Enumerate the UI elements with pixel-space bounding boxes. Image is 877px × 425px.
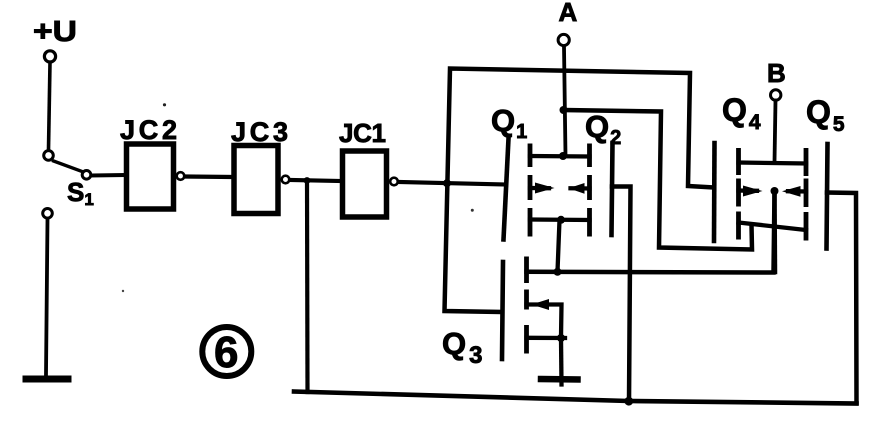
wire Q3 source to ground (559, 338, 564, 385)
junction dot sources (557, 216, 565, 224)
wire switch to JC2 input (92, 173, 125, 178)
wire JC3 to JC1 (290, 180, 341, 181)
Q1/Q2 drain lead (530, 154, 590, 159)
Q1 substrate arrow (535, 183, 555, 194)
junction dot bottom rail (624, 397, 633, 406)
wire sources down to Q3 drain (558, 220, 560, 272)
wire A down to Q1/Q2 drains (564, 47, 566, 157)
junction dot Q4/Q5 substrates (771, 187, 779, 195)
switch S1 pivot contact (44, 151, 54, 161)
Q2 channel bars (587, 144, 592, 237)
svg-text:+U: +U (33, 16, 77, 48)
wire junction down to bottom rail (305, 181, 310, 393)
svg-text:S1: S1 (67, 177, 94, 209)
Q1/Q2 substrate lead (530, 186, 590, 191)
IC JC1 box (343, 151, 387, 217)
Q3 channel bars (524, 257, 529, 354)
svg-text:Q5: Q5 (806, 94, 845, 136)
IC JC2 box (127, 144, 174, 209)
svg-text:Q2: Q2 (585, 109, 621, 149)
terminal +U (44, 51, 55, 62)
junction dot node A branch (560, 106, 568, 114)
Q4 substrate arrow (743, 186, 763, 197)
Q1 channel bars (528, 144, 533, 237)
feedback net from JC1 node to Q3 gate and Q4 gate (445, 69, 715, 313)
wire Q2 gate to bottom rail (612, 187, 631, 403)
Q4/Q5 source lead (739, 223, 807, 231)
Q3 source lead (527, 336, 566, 341)
transistor Q3 gate (502, 262, 503, 359)
JC2 output bubble (177, 172, 185, 180)
svg-text:Q4: Q4 (722, 92, 761, 134)
Q4 channel bars (736, 148, 741, 240)
speckle (163, 103, 166, 106)
Q1/Q2 source lead (530, 217, 590, 222)
svg-text:Q3: Q3 (442, 326, 482, 369)
junction node after JC3 (304, 177, 311, 184)
transistor Q1 gate (504, 139, 509, 240)
Q3 drain lead and net to Q4/Q5 substrate (527, 192, 775, 273)
JC1 output bubble (390, 178, 398, 186)
wire JC1 output to Q1 gate (399, 182, 507, 185)
wire JC2 to JC3 (185, 174, 231, 179)
wire +U terminal to switch pivot (49, 63, 51, 150)
wire node A to Q4/Q5 sources (564, 110, 753, 250)
speckle (471, 209, 474, 212)
Q4/Q5 substrate lead (739, 191, 807, 192)
terminal B (771, 90, 781, 100)
junction dot on feedback net (443, 179, 451, 187)
wire Q5 gate to right rail (827, 193, 857, 404)
Q4/Q5 drain lead (739, 163, 807, 164)
switch S1 throw contact (82, 171, 91, 180)
junction dot Q3 source (557, 334, 565, 342)
Q5 channel bars (804, 148, 809, 241)
IC JC3 box (234, 146, 278, 214)
svg-text:JC2: JC2 (120, 115, 177, 145)
svg-text:JC3: JC3 (231, 117, 288, 147)
svg-text:JC1: JC1 (339, 118, 386, 148)
Q3 substrate arrow (532, 299, 550, 310)
wire B to Q4/Q5 drain lead (775, 101, 776, 163)
svg-text:6: 6 (214, 328, 238, 377)
Q5 substrate arrow (782, 186, 801, 197)
bottom rail wire (294, 392, 857, 404)
transistor Q5 gate (827, 144, 828, 249)
terminal A (558, 34, 569, 45)
wire lower terminal to ground (46, 219, 48, 374)
speckle (122, 290, 124, 292)
junction dot drains (559, 152, 567, 160)
svg-text:A: A (559, 0, 578, 27)
ground bar under Q3 (541, 376, 578, 383)
junction dot Q3 drain (554, 268, 562, 276)
Q2 substrate arrow (569, 183, 585, 194)
transistor Q2 gate (612, 143, 613, 235)
switch S1 arm (54, 161, 83, 172)
svg-text:B: B (767, 58, 786, 88)
figure number circled 6 (202, 327, 251, 376)
ground bar (26, 376, 68, 383)
JC3 output bubble (282, 176, 290, 184)
Q3 substrate lead tied to source (527, 305, 562, 338)
lower throw terminal (43, 209, 53, 219)
wire substrates down to Q3 drain net (772, 191, 777, 272)
transistor Q4 gate (712, 143, 717, 241)
